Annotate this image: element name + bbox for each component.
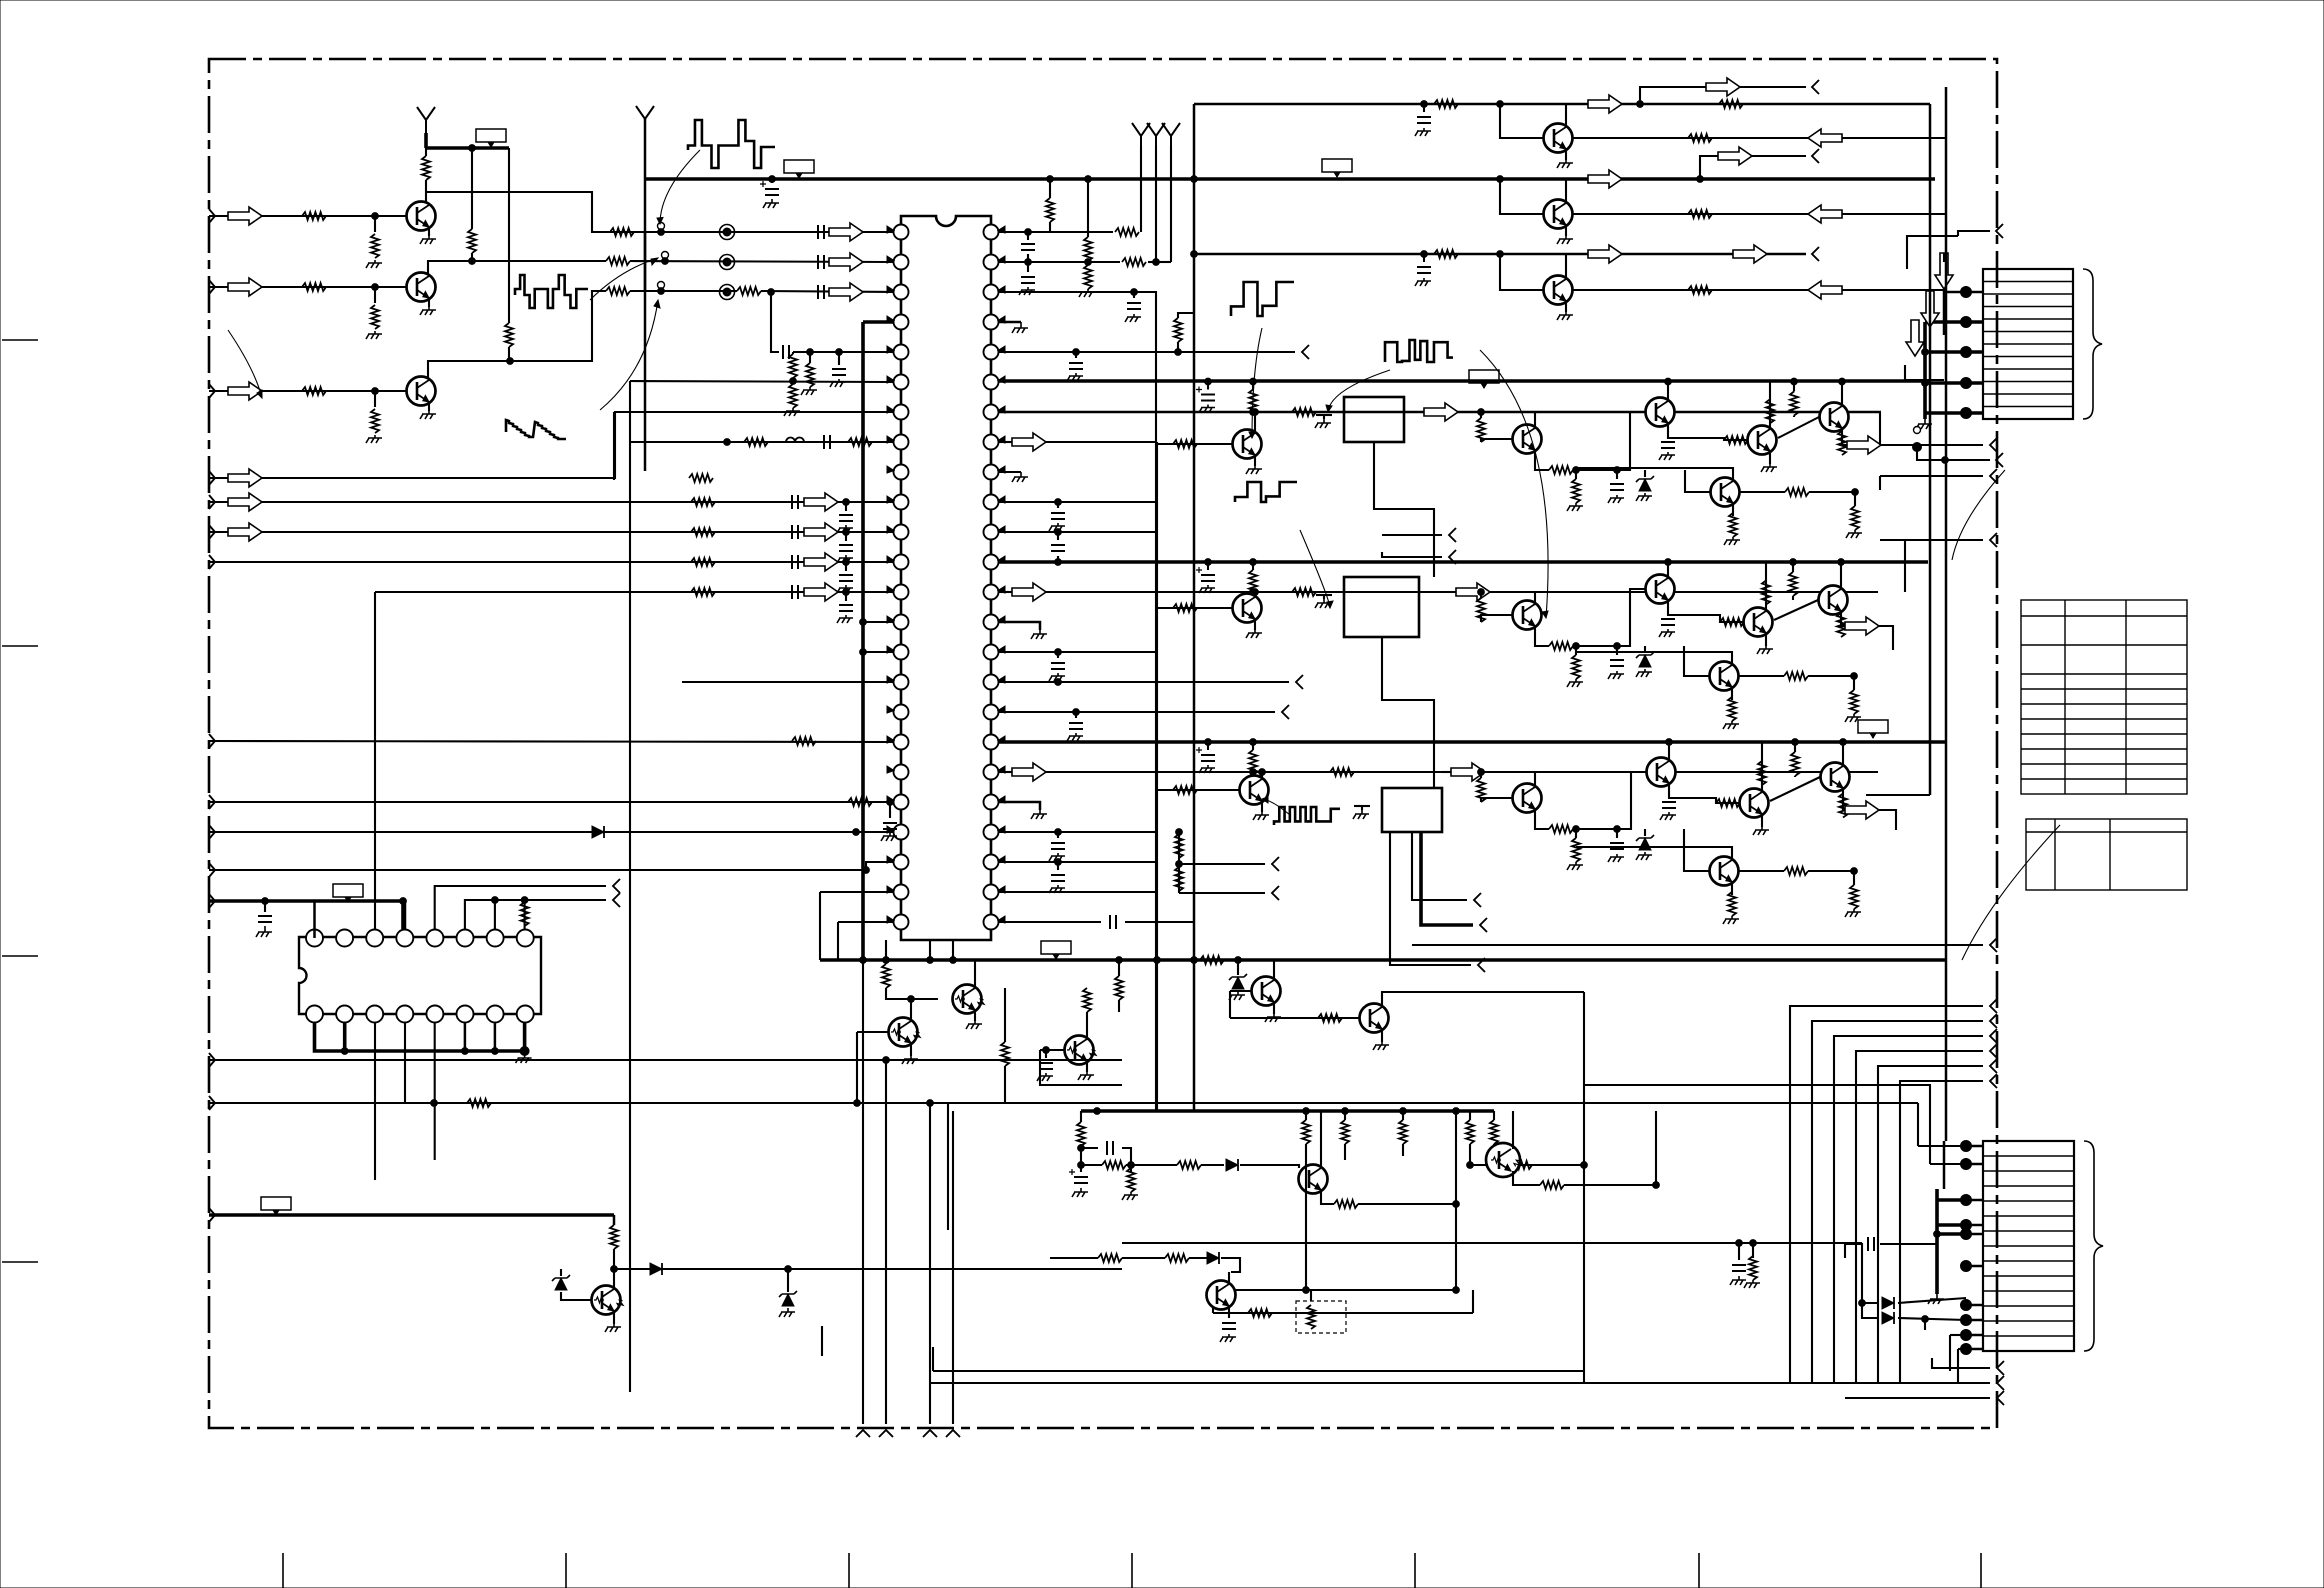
ground — [1730, 1276, 1746, 1285]
wire — [1057, 862, 1059, 870]
off-page connector — [613, 893, 620, 907]
connector CN501 pin separator — [1983, 356, 2073, 358]
junction — [1073, 349, 1080, 356]
junction — [520, 1047, 529, 1056]
capacitor — [792, 495, 798, 509]
IC502 pin 14 (bottom) — [366, 1006, 383, 1023]
wire — [1421, 832, 1473, 925]
signal arrow — [1706, 78, 1740, 96]
wire — [1535, 626, 1549, 646]
junction — [1497, 251, 1504, 258]
pin arrowhead — [998, 346, 1005, 353]
ground — [1845, 714, 1861, 722]
IC501 pin 21 — [894, 825, 909, 840]
capacitor — [1610, 843, 1624, 849]
fold tick — [1131, 1553, 1133, 1588]
wire — [1087, 262, 1089, 265]
wire — [1133, 292, 1135, 298]
wire — [209, 561, 893, 563]
signal arrow — [1588, 245, 1622, 263]
connector CN502 pin separator — [1983, 1230, 2074, 1232]
fold tick — [848, 1553, 850, 1588]
resistor — [1477, 418, 1485, 442]
ground — [605, 1324, 621, 1332]
long signal line — [857, 1102, 1918, 1104]
wire — [999, 651, 1157, 653]
wire — [1958, 231, 1990, 236]
resistor — [371, 305, 379, 329]
wire — [1252, 772, 1254, 774]
ground — [837, 615, 853, 623]
capacitor — [1662, 802, 1676, 808]
wire — [1966, 382, 1983, 385]
wire — [809, 352, 811, 363]
ground — [1567, 503, 1583, 511]
wire — [1966, 412, 1983, 415]
wire — [1221, 1258, 1240, 1272]
input chevron — [209, 894, 215, 908]
wire — [1361, 806, 1363, 810]
legend table column line — [2054, 819, 2056, 890]
wire — [343, 1022, 347, 1051]
ground — [1072, 1188, 1088, 1197]
pin arrowhead — [998, 766, 1005, 773]
resistor — [1549, 642, 1573, 650]
capacitor — [1021, 277, 1035, 283]
wire — [1879, 810, 1896, 830]
value label box — [261, 1197, 291, 1210]
capacitor — [839, 515, 853, 521]
wire — [999, 622, 1040, 630]
resistor — [1177, 1161, 1201, 1169]
connector CN502 pin separator — [1983, 1275, 2074, 1277]
open terminal — [658, 282, 665, 289]
pin arrowhead — [887, 346, 894, 353]
wire — [1240, 1165, 1299, 1168]
capacitor — [1039, 1063, 1053, 1069]
connector CN501 brace — [2083, 269, 2102, 419]
pin arrowhead — [887, 886, 894, 893]
ground — [1761, 464, 1777, 472]
junction — [1697, 176, 1704, 183]
wire — [1617, 412, 1645, 470]
wire — [837, 922, 839, 960]
junction — [1205, 739, 1212, 746]
IC501 pin 35 — [984, 615, 999, 630]
resistor — [1850, 885, 1858, 909]
wire — [1949, 1335, 1951, 1371]
wire — [1778, 417, 1819, 438]
off-page connector — [1990, 1074, 1997, 1088]
ground — [1928, 1294, 1944, 1304]
wire — [974, 960, 976, 988]
capacitor — [839, 575, 853, 581]
switched supply line — [209, 1213, 614, 1217]
connector CN501 — [1983, 269, 2073, 419]
wire — [1668, 615, 1743, 622]
wire — [404, 901, 407, 929]
wire — [614, 1268, 650, 1270]
parts table row line — [2021, 615, 2187, 617]
wire — [209, 899, 403, 903]
IC501 pin 24 — [894, 915, 909, 930]
long signal line — [933, 1370, 1584, 1372]
capacitor — [1051, 545, 1065, 551]
junction — [1851, 868, 1858, 875]
pin arrowhead — [887, 406, 894, 413]
capacitor — [1732, 1265, 1746, 1271]
wire — [1500, 179, 1543, 214]
junction — [1078, 1145, 1085, 1152]
wire — [374, 216, 376, 232]
ground — [1373, 1042, 1389, 1050]
resistor — [1784, 672, 1808, 680]
signal arrow — [1921, 291, 1939, 327]
off-page connector — [1997, 1361, 2004, 1375]
wire — [999, 321, 1021, 324]
fold tick — [2, 955, 38, 957]
wire — [1774, 600, 1818, 620]
resistor — [1175, 867, 1183, 891]
capacitor — [258, 916, 272, 922]
junction — [507, 358, 514, 365]
junction — [1581, 1162, 1588, 1169]
wire — [1793, 416, 1795, 418]
IC501 pin 38 — [984, 525, 999, 540]
IC501 pin 26 — [984, 885, 999, 900]
resistor — [1572, 479, 1580, 503]
wire — [1937, 1198, 1966, 1202]
signal line — [209, 1102, 857, 1104]
signal arrow — [804, 523, 838, 541]
wire — [1320, 1111, 1322, 1168]
wire — [1310, 1290, 1312, 1301]
wire — [1481, 439, 1512, 442]
wire — [1616, 470, 1618, 479]
IC502 pin 12 (bottom) — [426, 1006, 443, 1023]
wire — [630, 441, 893, 443]
junction — [807, 349, 814, 356]
resistor — [1728, 697, 1736, 721]
signal arrow — [228, 469, 262, 487]
right vertical rail 2 — [1945, 87, 1948, 1141]
transistor Q (buffer) — [1544, 276, 1573, 305]
junction — [1400, 1108, 1407, 1115]
off-page connector — [1478, 958, 1485, 972]
wire — [1808, 675, 1854, 677]
wire — [1573, 469, 1576, 471]
junction — [1205, 378, 1212, 385]
resistor — [1399, 1120, 1407, 1144]
capacitor — [1051, 843, 1065, 849]
wire — [1534, 592, 1536, 604]
row1 signal line — [999, 411, 1881, 414]
wire — [1382, 534, 1442, 536]
junction — [611, 1266, 618, 1273]
wire — [787, 1269, 789, 1292]
junction — [1922, 1316, 1929, 1323]
signal arrow — [1451, 763, 1485, 781]
off-page connector — [1449, 528, 1456, 542]
junction — [1055, 829, 1062, 836]
wire — [1950, 1334, 1966, 1336]
wire — [999, 471, 1021, 473]
resistor — [1165, 1254, 1189, 1262]
junction — [1791, 378, 1798, 385]
diode — [1207, 1252, 1219, 1264]
capacitor — [1110, 915, 1116, 929]
leader arc — [228, 330, 262, 398]
off-page connector — [1449, 550, 1456, 564]
wire — [1050, 1257, 1098, 1259]
waveform leader — [590, 258, 658, 300]
junction — [1191, 176, 1198, 183]
junction — [1573, 826, 1580, 833]
wire — [999, 531, 1157, 533]
off-page connector — [1272, 886, 1279, 900]
input chevron — [209, 471, 215, 485]
pin arrowhead — [887, 526, 894, 533]
reference label — [1469, 370, 1499, 383]
off-page connector — [1812, 247, 1819, 261]
connector CN501 pin separator — [1983, 318, 2073, 320]
signal arrow — [829, 223, 863, 241]
CN502 pin dot — [1961, 1330, 1972, 1341]
wire — [863, 320, 893, 324]
ground — [966, 1021, 982, 1029]
signal arrow — [1935, 253, 1953, 289]
resistor — [610, 1225, 618, 1249]
signal arrow — [228, 523, 262, 541]
capacitor — [1201, 575, 1215, 581]
wire — [1500, 254, 1543, 290]
wire — [1045, 1050, 1047, 1058]
wire — [1584, 1085, 1930, 1164]
value label box — [1041, 941, 1071, 954]
IC501 pin 27 — [984, 855, 999, 870]
long vertical wire — [952, 1111, 954, 1424]
supply arrow — [1132, 123, 1150, 150]
parts table row line — [2021, 763, 2187, 765]
CN501 pin dot — [1961, 347, 1972, 358]
IC501 pin 18 — [894, 735, 909, 750]
ground — [1557, 236, 1573, 244]
wire — [974, 1010, 976, 1021]
resistor — [789, 354, 797, 378]
signal arrow — [1906, 320, 1924, 356]
wire — [761, 291, 893, 292]
input chevron — [209, 825, 215, 839]
off-page connector — [1990, 438, 1997, 452]
wire — [424, 133, 428, 148]
wire — [630, 261, 893, 262]
resistor — [1688, 210, 1712, 218]
junction — [1665, 378, 1672, 385]
resistor — [1102, 1161, 1126, 1169]
junction — [1131, 289, 1138, 296]
wire — [952, 940, 954, 960]
pin arrowhead — [998, 526, 1005, 533]
wire — [1305, 1144, 1307, 1290]
connector CN502 pin separator — [1983, 1290, 2074, 1292]
transistor (bias) — [1252, 977, 1281, 1006]
wire — [1485, 771, 1878, 773]
resistor — [1115, 976, 1123, 1000]
resistor — [1083, 988, 1091, 1012]
wire — [999, 681, 1289, 683]
wire — [1685, 470, 1710, 492]
wire — [1809, 491, 1855, 493]
wire — [1925, 381, 1983, 385]
pin arrowhead — [887, 256, 894, 263]
connector CN502 pin separator — [1983, 1200, 2074, 1202]
wire — [1576, 847, 1732, 860]
CN502 pin dot — [1961, 1229, 1972, 1240]
wire — [561, 1292, 592, 1300]
wire — [1644, 646, 1646, 653]
third line — [1194, 253, 1806, 256]
junction — [1055, 859, 1062, 866]
junction — [1085, 259, 1092, 266]
junction — [1478, 769, 1485, 776]
signal arrow — [228, 278, 262, 296]
wire — [1404, 411, 1424, 413]
wire — [1534, 412, 1536, 428]
wire — [1731, 882, 1733, 895]
capacitor — [783, 345, 789, 359]
off-page connector — [1282, 705, 1289, 719]
connector CN502 pin separator — [1983, 1245, 2074, 1247]
ground — [1199, 765, 1215, 773]
wire — [1402, 1144, 1404, 1156]
ground — [837, 555, 853, 563]
signal arrow — [1808, 129, 1842, 147]
wire — [1500, 104, 1543, 138]
waveform pulse train — [688, 120, 775, 168]
junction — [1614, 643, 1621, 650]
wire — [1480, 592, 1482, 598]
wire — [1842, 428, 1847, 445]
junction — [1666, 739, 1673, 746]
zener diode — [1636, 835, 1654, 850]
video amp row2 transistor — [1710, 662, 1739, 691]
pin arrowhead — [887, 556, 894, 563]
junction — [1453, 1108, 1460, 1115]
wire — [792, 352, 794, 354]
wire — [1879, 476, 1881, 490]
wire — [613, 1249, 615, 1269]
ground — [1012, 322, 1028, 333]
IC502 pin 3 (top) — [366, 930, 383, 947]
junction — [1055, 649, 1062, 656]
input chevron — [209, 209, 215, 223]
ground — [1315, 419, 1331, 428]
capacitor — [818, 285, 824, 299]
pin arrowhead — [887, 316, 894, 323]
pin arrowhead — [998, 616, 1005, 623]
wire — [1565, 149, 1567, 160]
junction — [836, 349, 843, 356]
wire — [999, 921, 1101, 923]
resistor — [371, 234, 379, 258]
pin arrowhead — [998, 496, 1005, 503]
ground — [1253, 812, 1269, 820]
capacitor — [1610, 660, 1624, 666]
wire — [1925, 320, 1983, 324]
wire — [1321, 1190, 1334, 1204]
wire — [315, 901, 404, 929]
wire — [1904, 540, 1906, 592]
wire — [1040, 1050, 1122, 1085]
wire — [1213, 1312, 1311, 1314]
resistor — [1173, 440, 1197, 448]
video amp row1 transistor — [1711, 478, 1740, 507]
capacitor — [1021, 244, 1035, 250]
signal arrow — [228, 382, 262, 400]
off-page connector — [1990, 938, 1997, 952]
resistor — [1084, 265, 1092, 289]
resistor — [848, 798, 872, 806]
resistor — [1749, 1256, 1757, 1280]
transistor (bias) — [953, 985, 987, 1014]
wire — [1944, 292, 1966, 335]
junction — [1942, 457, 1949, 464]
ground — [1724, 537, 1740, 545]
wire — [1157, 607, 1232, 609]
wire — [1880, 1243, 1937, 1245]
wire — [1481, 615, 1512, 622]
wire — [1316, 591, 1344, 593]
junction — [1497, 101, 1504, 108]
capacitor — [792, 525, 798, 539]
ground — [420, 307, 436, 315]
ground — [1031, 630, 1047, 639]
wire — [209, 286, 406, 288]
IC502 pin 1 (top) — [306, 930, 323, 947]
wire — [1170, 146, 1172, 262]
IC502 pin 4 (top) — [396, 930, 413, 947]
resistor — [1719, 100, 1743, 108]
CN502 pin dot — [1961, 1195, 1972, 1206]
junction — [1055, 499, 1062, 506]
schematic boundary (dash-dot frame) — [209, 59, 1997, 1428]
junction — [790, 378, 797, 385]
wire — [1254, 592, 1256, 597]
wire — [845, 562, 847, 571]
IC501 pin 48 — [984, 225, 999, 240]
wire — [1311, 1312, 1473, 1314]
resistor — [468, 229, 476, 253]
wire — [1576, 645, 1617, 647]
signal arrow — [1847, 436, 1881, 454]
parts table column line — [2125, 600, 2127, 794]
wire — [426, 192, 649, 232]
IC501 pin 17 — [894, 705, 909, 720]
transistor Q (record amp) — [1299, 1165, 1328, 1194]
ground — [1636, 669, 1652, 677]
wire — [1616, 646, 1618, 655]
wire — [999, 351, 1295, 353]
ground — [1659, 452, 1675, 460]
ground — [1353, 810, 1369, 819]
video amp row2 transistor — [1744, 608, 1773, 637]
wire — [494, 900, 496, 929]
IC501 pin 5 — [894, 345, 909, 360]
wire — [209, 741, 893, 742]
wire — [1752, 1243, 1754, 1258]
IC501 pin 25 — [984, 915, 999, 930]
wire — [885, 940, 887, 960]
